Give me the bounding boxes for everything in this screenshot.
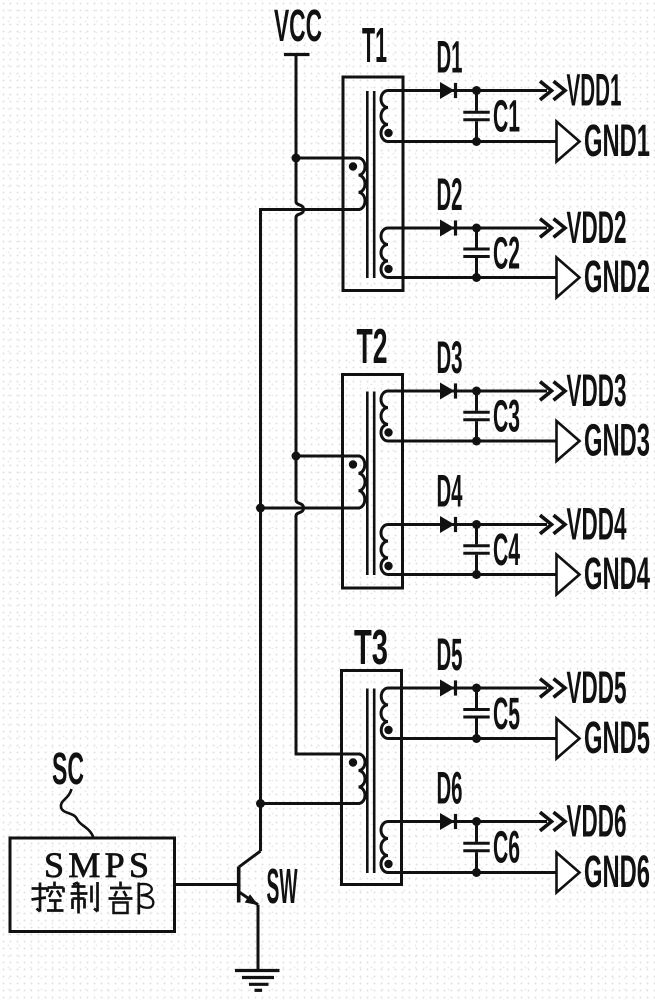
transformer T1 secondary winding 1 bbox=[381, 91, 388, 142]
transformer T2 secondary 3 polarity dot bbox=[384, 428, 392, 436]
VDD6 output arrow bbox=[540, 812, 552, 831]
svg-text:D4: D4 bbox=[437, 466, 463, 517]
svg-text:VDD1: VDD1 bbox=[567, 65, 622, 116]
transformer T3 box bbox=[342, 671, 402, 885]
diode D1 bbox=[441, 83, 454, 98]
GND5 output terminal triangle bbox=[557, 719, 580, 759]
diode D3 bbox=[441, 383, 454, 398]
svg-text:SMPS: SMPS bbox=[44, 845, 149, 885]
node: diode D5 output junction bbox=[472, 684, 481, 693]
label 控 (hand-drawn glyph) bbox=[32, 882, 64, 912]
capacitor C6 bbox=[475, 822, 478, 842]
left return vertical line (to switch collector) bbox=[259, 210, 262, 852]
wire: secondary 2 VDD rail bbox=[388, 227, 547, 230]
node: junction on VCC line at T2 primary top bbox=[292, 452, 301, 461]
wire: emitter to ground bbox=[257, 905, 260, 971]
svg-text:GND2: GND2 bbox=[584, 251, 650, 302]
node: junction on left line at T3 primary bottom bbox=[256, 799, 265, 808]
transformer T1 secondary winding 2 bbox=[381, 228, 388, 278]
transformer T2 secondary winding 4 bbox=[381, 525, 388, 575]
VCC terminal bar bbox=[284, 53, 310, 56]
svg-text:SW: SW bbox=[267, 859, 298, 914]
wire: secondary 2 GND rail bbox=[388, 276, 557, 279]
wire: T3 primary bottom return bbox=[261, 802, 361, 805]
VDD3 output arrow bbox=[540, 382, 552, 401]
VDD4 output arrow bbox=[540, 515, 552, 534]
GND4 output terminal triangle bbox=[557, 555, 580, 595]
transformer T1 box bbox=[343, 77, 403, 291]
transformer T1 secondary 2 polarity dot bbox=[384, 265, 392, 273]
wire: secondary 3 GND rail bbox=[388, 440, 557, 443]
svg-text:C2: C2 bbox=[493, 227, 520, 278]
SMPS controller box U1 bbox=[10, 838, 175, 932]
wire: secondary 6 VDD rail bbox=[388, 820, 547, 823]
node: junction on left line at T2 primary bottom bbox=[256, 504, 265, 513]
diode D5 bbox=[441, 680, 454, 695]
svg-text:GND1: GND1 bbox=[584, 115, 650, 166]
svg-text:VDD4: VDD4 bbox=[567, 499, 627, 550]
svg-text:C1: C1 bbox=[493, 91, 520, 142]
VDD5 output arrow bbox=[540, 679, 552, 698]
wire: T1 primary bottom return bbox=[259, 208, 360, 211]
transformer T3 secondary winding 6 bbox=[381, 822, 388, 873]
node: capacitor C2 ground junction bbox=[472, 273, 481, 282]
wire: secondary 1 GND rail bbox=[388, 140, 557, 143]
svg-text:D3: D3 bbox=[437, 332, 463, 383]
GND3 output terminal triangle bbox=[557, 421, 580, 461]
wire: T2 primary bottom return bbox=[261, 507, 361, 510]
svg-text:T2: T2 bbox=[357, 319, 388, 374]
transformer T1 secondary 1 polarity dot bbox=[384, 129, 392, 137]
svg-text:D1: D1 bbox=[437, 32, 463, 83]
node: diode D1 output junction bbox=[472, 86, 481, 95]
svg-text:GND4: GND4 bbox=[584, 548, 650, 599]
transformer T3 secondary winding 5 bbox=[381, 688, 388, 739]
capacitor C4 bbox=[475, 525, 478, 545]
capacitor C2 bbox=[475, 228, 478, 248]
diode D4 bbox=[441, 517, 454, 532]
capacitor C3 bbox=[475, 391, 478, 411]
svg-text:C6: C6 bbox=[493, 822, 520, 873]
GND6 output terminal triangle bbox=[557, 853, 580, 893]
diode D2 bbox=[441, 220, 454, 235]
wire: secondary 4 VDD rail bbox=[388, 523, 547, 526]
svg-text:C3: C3 bbox=[493, 391, 520, 442]
transformer T1 primary polarity dot bbox=[349, 162, 357, 170]
svg-text:VDD6: VDD6 bbox=[567, 796, 627, 847]
svg-text:GND6: GND6 bbox=[584, 846, 650, 897]
node: capacitor C4 ground junction bbox=[472, 570, 481, 579]
VDD2 output arrow bbox=[540, 219, 552, 238]
transformer T2 primary polarity dot bbox=[349, 460, 357, 468]
node: capacitor C6 ground junction bbox=[472, 868, 481, 877]
transformer T3 core bbox=[366, 689, 369, 874]
node: capacitor C5 ground junction bbox=[472, 734, 481, 743]
svg-text:D2: D2 bbox=[437, 169, 463, 220]
transformer T3 primary winding bbox=[359, 754, 366, 804]
wire: secondary 3 VDD rail bbox=[388, 390, 547, 393]
node: capacitor C1 ground junction bbox=[472, 137, 481, 146]
transformer T3 primary polarity dot bbox=[349, 758, 357, 766]
wire: T1 primary top from VCC bbox=[296, 157, 360, 160]
capacitor C1 bbox=[475, 91, 478, 111]
transistor SW (NPN switch) bbox=[237, 867, 241, 903]
node: diode D4 output junction bbox=[472, 520, 481, 529]
svg-text:VDD2: VDD2 bbox=[567, 202, 627, 253]
svg-text:VDD5: VDD5 bbox=[567, 662, 627, 713]
wire: secondary 5 VDD rail bbox=[388, 687, 547, 690]
transformer T3 secondary 5 polarity dot bbox=[384, 726, 392, 734]
diode D6 bbox=[441, 814, 454, 829]
wire: secondary 1 VDD rail bbox=[388, 89, 547, 92]
transformer T2 secondary 4 polarity dot bbox=[384, 562, 392, 570]
transformer T2 core bbox=[366, 392, 369, 576]
GND1 output terminal triangle bbox=[557, 122, 580, 162]
node: diode D2 output junction bbox=[472, 224, 481, 233]
wire: T2 primary top from VCC bbox=[296, 455, 360, 458]
svg-text:GND5: GND5 bbox=[584, 712, 650, 763]
node: diode D3 output junction bbox=[472, 387, 481, 396]
SC leader squiggle bbox=[61, 789, 94, 838]
wire: VCC vertical line with hops over primary return wires bbox=[296, 55, 304, 755]
svg-text:C4: C4 bbox=[493, 524, 520, 575]
wire: secondary 4 GND rail bbox=[388, 573, 557, 576]
svg-text:D5: D5 bbox=[437, 629, 463, 680]
label 制 (hand-drawn glyph) bbox=[71, 882, 98, 914]
wire: SMPS output to switch base bbox=[175, 883, 238, 886]
svg-text:VCC: VCC bbox=[274, 0, 322, 51]
GND2 output terminal triangle bbox=[557, 258, 580, 298]
transformer T1 primary winding bbox=[359, 158, 366, 210]
node: capacitor C3 ground junction bbox=[472, 437, 481, 446]
capacitor C5 bbox=[475, 688, 478, 708]
transformer T3 secondary 6 polarity dot bbox=[384, 860, 392, 868]
svg-text:T1: T1 bbox=[362, 18, 387, 73]
VDD1 output arrow bbox=[540, 81, 552, 100]
svg-text:C5: C5 bbox=[493, 688, 520, 739]
node: junction on VCC line at T1 primary top bbox=[292, 154, 301, 163]
transformer T2 box bbox=[343, 375, 403, 589]
svg-text:VDD3: VDD3 bbox=[567, 365, 627, 416]
label 部 (hand-drawn glyph) bbox=[109, 882, 154, 915]
wire: VCC corner to T3 primary top bbox=[295, 753, 360, 756]
svg-text:T3: T3 bbox=[354, 620, 388, 675]
transformer T1 core bbox=[366, 91, 369, 278]
transformer T2 primary winding bbox=[359, 456, 366, 508]
wire: secondary 6 GND rail bbox=[388, 871, 557, 874]
svg-text:SC: SC bbox=[52, 743, 84, 794]
node: diode D6 output junction bbox=[472, 817, 481, 826]
ground symbol bbox=[235, 969, 280, 972]
wire: secondary 5 GND rail bbox=[388, 737, 557, 740]
transformer T2 secondary winding 3 bbox=[381, 391, 388, 441]
svg-text:D6: D6 bbox=[437, 763, 463, 814]
svg-text:GND3: GND3 bbox=[584, 415, 650, 466]
